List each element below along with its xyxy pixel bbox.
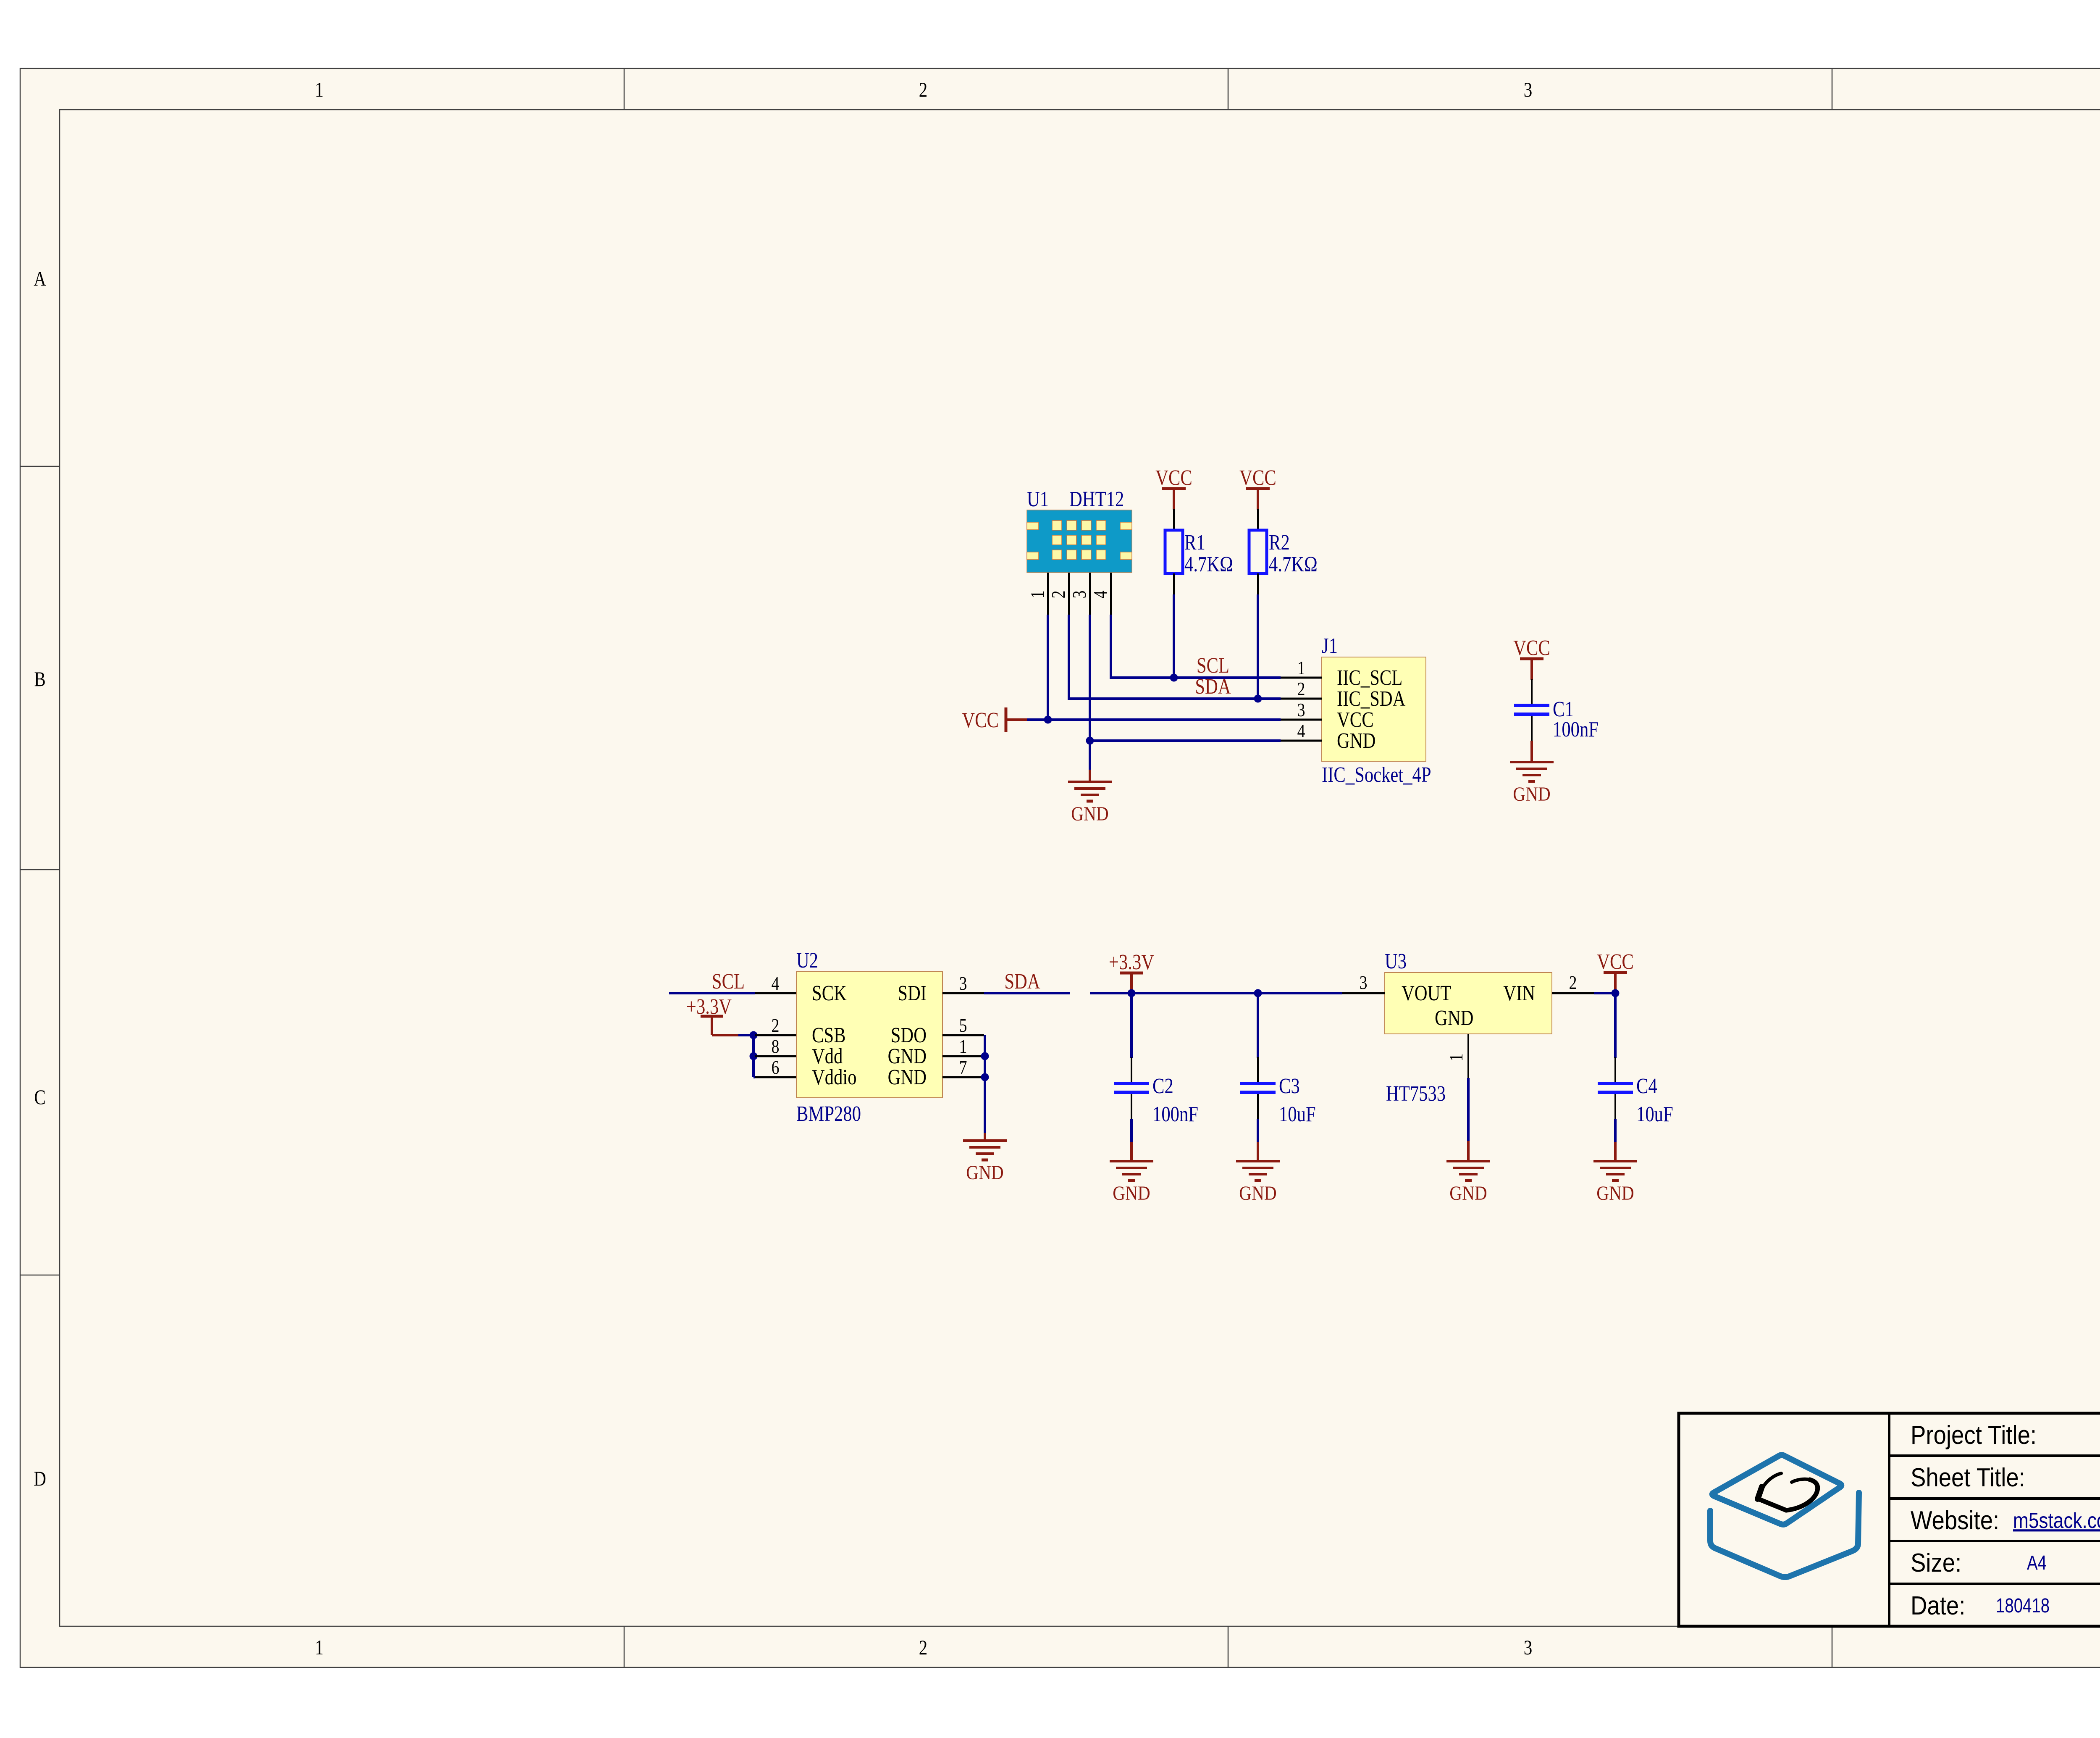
junction: [1086, 737, 1094, 745]
junction: [750, 1052, 758, 1060]
junction: [981, 1052, 989, 1060]
svg-text:SCL: SCL: [1197, 654, 1229, 678]
svg-text:A: A: [34, 267, 46, 290]
svg-text:A4: A4: [2027, 1552, 2047, 1574]
svg-text:GND: GND: [1239, 1182, 1276, 1204]
svg-text:C2: C2: [1152, 1074, 1173, 1098]
capacitor C1: [1514, 679, 1549, 741]
svg-text:GND: GND: [888, 1065, 927, 1089]
U2 pin 8 Vdd: [755, 1036, 796, 1057]
svg-text:3: 3: [959, 973, 967, 994]
resistor R2: [1249, 509, 1267, 594]
svg-text:Size:: Size:: [1911, 1549, 1961, 1578]
svg-text:6: 6: [772, 1057, 780, 1078]
U3 pin 2 VIN: [1552, 973, 1594, 994]
junction: [1128, 989, 1136, 997]
wire U1 pin1 to VCC net: [1047, 615, 1049, 720]
svg-text:3: 3: [1360, 973, 1368, 994]
wire SCL to U2 SCK: [669, 992, 755, 994]
svg-text:4: 4: [772, 973, 780, 994]
svg-text:180418: 180418: [1996, 1595, 2050, 1617]
J1 pin 2: [1281, 679, 1322, 700]
svg-text:2: 2: [1569, 973, 1577, 994]
U1 pin 2: [1048, 573, 1069, 615]
svg-text:U1: U1: [1027, 487, 1049, 511]
svg-text:8: 8: [772, 1036, 780, 1057]
wire GND net to J1 pin4: [1090, 739, 1281, 742]
svg-text:J1: J1: [1322, 634, 1338, 658]
svg-text:2: 2: [1048, 591, 1069, 599]
svg-text:VCC: VCC: [1513, 636, 1550, 660]
svg-text:D: D: [34, 1467, 46, 1490]
junction: [1254, 695, 1262, 703]
M5Stack logo box: [1710, 1455, 1859, 1577]
svg-text:2: 2: [919, 78, 927, 101]
svg-text:IIC_SDA: IIC_SDA: [1337, 687, 1405, 711]
svg-text:GND: GND: [1435, 1006, 1473, 1030]
wire U1 pin4 to SCL net: [1111, 615, 1281, 678]
title block frame: [1679, 1413, 2100, 1626]
J1 pin 4: [1281, 721, 1322, 742]
ground below U1: [1068, 782, 1112, 825]
svg-text:1: 1: [1297, 658, 1305, 679]
svg-text:7: 7: [959, 1057, 967, 1078]
U3 pin 1 GND: [1446, 1034, 1468, 1078]
junction: [981, 1073, 989, 1081]
svg-text:m5stack.com: m5stack.com: [2013, 1509, 2100, 1533]
svg-text:GND: GND: [1449, 1182, 1487, 1204]
svg-text:VCC: VCC: [1155, 466, 1192, 490]
ground below C3: [1236, 1161, 1280, 1204]
ground below U2: [963, 1141, 1007, 1184]
U2 pin 5 SDO: [942, 1015, 984, 1036]
svg-text:SCL: SCL: [712, 970, 745, 994]
wire C4 to ground: [1614, 1119, 1617, 1142]
svg-text:SDI: SDI: [898, 981, 927, 1005]
resistor R1: [1165, 509, 1183, 594]
wire R1 to SCL: [1173, 594, 1175, 678]
svg-text:SDA: SDA: [1004, 970, 1040, 994]
svg-text:CSB: CSB: [812, 1023, 846, 1047]
power VCC symbol above C1: [1513, 636, 1550, 680]
svg-text:VCC: VCC: [1597, 950, 1634, 974]
connector J1 IIC_Socket_4P body: [1322, 657, 1426, 761]
wire U1 pin2 to SDA net: [1069, 615, 1281, 699]
J1 pin 3: [1281, 700, 1322, 721]
wire C2 to ground: [1130, 1119, 1133, 1142]
U2 pin 6 Vddio: [755, 1057, 796, 1078]
svg-text:Website:: Website:: [1911, 1506, 1999, 1535]
logo digit 5: [1757, 1473, 1818, 1510]
svg-text:3: 3: [1069, 591, 1090, 599]
ground below C2: [1110, 1161, 1153, 1204]
U3 pin 3 VOUT: [1342, 973, 1385, 994]
svg-text:10uF: 10uF: [1279, 1102, 1316, 1126]
svg-text:DHT12: DHT12: [1069, 487, 1124, 511]
junction: [1170, 674, 1178, 682]
svg-text:GND: GND: [1337, 729, 1375, 753]
svg-text:GND: GND: [1071, 802, 1108, 825]
power VCC symbol left (bar right): [962, 707, 1027, 732]
wire VCC to C1: [1530, 678, 1533, 680]
svg-text:2: 2: [919, 1635, 927, 1659]
capacitor C4: [1598, 1057, 1633, 1119]
wire U2 SDI to SDA net: [984, 992, 1070, 994]
wire U3 GND to ground: [1467, 1078, 1470, 1141]
IC U1 DHT12 sensor body: [1027, 510, 1132, 573]
U2 pin 7 GND: [942, 1057, 984, 1078]
svg-text:U2: U2: [796, 949, 818, 973]
junction: [1044, 716, 1052, 724]
svg-text:U3: U3: [1385, 949, 1407, 973]
svg-text:R1: R1: [1184, 531, 1205, 555]
regulator U3 body: [1385, 973, 1552, 1034]
capacitor C3: [1240, 1057, 1276, 1119]
U1 pin 4: [1090, 573, 1111, 615]
svg-text:VOUT: VOUT: [1402, 981, 1451, 1005]
svg-text:4.7KΩ: 4.7KΩ: [1184, 552, 1233, 576]
wire U3 VIN to VCC: [1594, 992, 1615, 994]
svg-text:Project Title:: Project Title:: [1911, 1421, 2037, 1450]
svg-text:Sheet Title:: Sheet Title:: [1911, 1463, 2025, 1492]
U2 pin 4 SCK: [755, 973, 796, 994]
svg-text:VCC: VCC: [1337, 708, 1374, 732]
svg-text:VIN: VIN: [1503, 981, 1535, 1005]
ground below U3: [1446, 1161, 1490, 1204]
svg-text:SCK: SCK: [812, 981, 847, 1005]
wire R2 to SDA: [1257, 594, 1259, 699]
U2 pin 1 GND: [942, 1036, 984, 1057]
svg-text:5: 5: [959, 1015, 967, 1036]
power +3.3V symbol at U2: [686, 995, 732, 1035]
wire to ground below U2: [984, 1133, 986, 1141]
ground below C4: [1593, 1161, 1637, 1204]
svg-text:GND: GND: [1113, 1182, 1150, 1204]
svg-text:1: 1: [1027, 591, 1048, 599]
svg-text:R2: R2: [1269, 531, 1290, 555]
wire to Vddio stub: [753, 1076, 755, 1078]
wire U2 SDO/GND pins chain: [984, 1035, 986, 1133]
IC U2 BMP280 body: [796, 972, 942, 1098]
wire VCC to J1 pin3: [1027, 718, 1281, 721]
svg-text:3: 3: [1524, 78, 1532, 101]
svg-text:B: B: [34, 667, 45, 691]
wire VCC to C4: [1614, 993, 1617, 1058]
svg-text:100nF: 100nF: [1553, 718, 1599, 741]
svg-text:Vdd: Vdd: [812, 1044, 843, 1068]
junction: [1254, 989, 1262, 997]
junction: [750, 1031, 758, 1039]
power +3.3V symbol on rail: [1109, 950, 1154, 994]
power VCC symbol at U3 VIN: [1597, 950, 1634, 994]
svg-text:GND: GND: [1596, 1182, 1634, 1204]
wire rail to C3: [1257, 993, 1259, 1058]
svg-text:GND: GND: [1513, 783, 1550, 805]
svg-text:C3: C3: [1279, 1074, 1300, 1098]
svg-text:3: 3: [1297, 700, 1305, 721]
svg-text:4.7KΩ: 4.7KΩ: [1269, 552, 1318, 576]
svg-text:3: 3: [1524, 1635, 1532, 1659]
svg-text:1: 1: [315, 1635, 323, 1659]
wire C1 to ground: [1530, 741, 1533, 762]
capacitor C2: [1114, 1057, 1149, 1119]
wire C3 to ground: [1257, 1119, 1259, 1142]
svg-text:IIC_Socket_4P: IIC_Socket_4P: [1322, 763, 1431, 787]
wire +3.3V rail to U3 VOUT: [1090, 992, 1342, 994]
svg-text:IIC_SCL: IIC_SCL: [1337, 666, 1402, 690]
power VCC symbol above R2: [1239, 466, 1276, 510]
svg-text:GND: GND: [966, 1161, 1003, 1184]
J1 pin 1: [1281, 658, 1322, 679]
svg-text:1: 1: [1446, 1054, 1467, 1062]
wire U1 pin3 to GND net: [1089, 615, 1091, 741]
svg-text:4: 4: [1297, 721, 1305, 742]
svg-text:2: 2: [1297, 679, 1305, 700]
svg-text:+3.3V: +3.3V: [1109, 950, 1154, 974]
svg-text:SDO: SDO: [891, 1023, 927, 1047]
U1 pin 3: [1069, 573, 1090, 615]
svg-text:BMP280: BMP280: [796, 1102, 861, 1126]
svg-text:C4: C4: [1636, 1074, 1657, 1098]
svg-text:100nF: 100nF: [1152, 1102, 1198, 1126]
U2 pin 2 CSB: [755, 1015, 796, 1036]
svg-text:SDA: SDA: [1195, 675, 1231, 699]
svg-text:+3.3V: +3.3V: [686, 995, 732, 1019]
ground below C1: [1510, 762, 1554, 805]
wire GND junction down to ground: [1089, 741, 1091, 770]
svg-text:1: 1: [315, 78, 323, 101]
wire rail to C2: [1130, 993, 1133, 1058]
svg-text:HT7533: HT7533: [1386, 1082, 1446, 1106]
svg-text:GND: GND: [888, 1044, 927, 1068]
svg-text:Vddio: Vddio: [812, 1065, 857, 1089]
svg-text:VCC: VCC: [962, 708, 999, 732]
U1 pin 1: [1027, 573, 1048, 615]
svg-text:2: 2: [772, 1015, 780, 1036]
power VCC symbol above R1: [1155, 466, 1192, 510]
svg-text:VCC: VCC: [1239, 466, 1276, 490]
junction: [1612, 989, 1620, 997]
svg-text:4: 4: [1090, 591, 1111, 599]
svg-text:1: 1: [959, 1036, 967, 1057]
svg-text:10uF: 10uF: [1636, 1102, 1673, 1126]
svg-text:C: C: [34, 1085, 45, 1109]
svg-text:Date:: Date:: [1911, 1591, 1965, 1620]
wire +3.3V to U2 CSB: [712, 1034, 738, 1036]
U2 pin 3 SDI: [942, 973, 984, 994]
wire down to Vdd/Vddio: [752, 1035, 755, 1077]
